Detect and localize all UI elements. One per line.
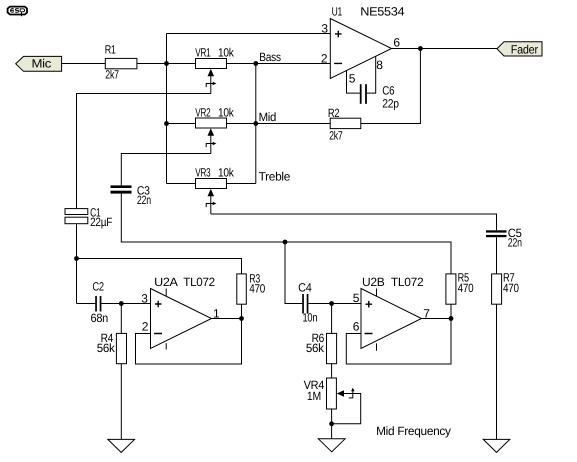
wire xyxy=(120,304,122,334)
svg-text:22µF: 22µF xyxy=(90,215,112,229)
capacitor C6 22p xyxy=(360,84,400,111)
potentiometer VR2 10k xyxy=(195,106,234,154)
svg-text:VR2: VR2 xyxy=(195,106,211,120)
svg-text:NE5534: NE5534 xyxy=(360,5,405,19)
wire VR3 wiper to C5 xyxy=(211,214,497,230)
resistor R2 2k7 xyxy=(328,106,361,143)
wire xyxy=(137,63,167,65)
wire xyxy=(167,123,196,125)
ground xyxy=(108,439,135,452)
wire xyxy=(496,237,498,274)
wire xyxy=(241,304,243,318)
wire U2B feedback xyxy=(346,319,451,365)
svg-text:56k: 56k xyxy=(97,341,116,355)
potentiometer VR3 10k xyxy=(195,166,234,214)
capacitor C3 22n xyxy=(111,184,151,208)
svg-text:C2: C2 xyxy=(92,280,104,294)
svg-text:22n: 22n xyxy=(137,193,151,207)
wire xyxy=(62,63,106,65)
resistor R4 56k xyxy=(97,331,127,364)
svg-text:68n: 68n xyxy=(91,311,109,325)
svg-text:5: 5 xyxy=(349,72,356,86)
op-amp U2B TL072 xyxy=(353,275,431,351)
resistor R3 470 xyxy=(237,272,266,305)
wire xyxy=(308,303,361,305)
svg-text:Treble: Treble xyxy=(259,169,291,183)
wire VR2 wiper to C3 xyxy=(121,154,211,186)
svg-text:Mid Frequency: Mid Frequency xyxy=(376,424,451,438)
svg-text:R1: R1 xyxy=(105,43,116,57)
node input bus xyxy=(164,34,169,184)
svg-text:Bass: Bass xyxy=(259,50,281,64)
op-amp U1 NE5534 xyxy=(321,5,405,86)
svg-text:22p: 22p xyxy=(382,97,399,111)
wire xyxy=(167,33,331,35)
svg-text:U2B: U2B xyxy=(362,275,385,289)
ground xyxy=(483,439,510,452)
wire xyxy=(227,123,256,125)
svg-text:2k7: 2k7 xyxy=(329,129,343,143)
node VR4 ground xyxy=(329,421,334,426)
svg-text:10k: 10k xyxy=(218,106,235,120)
wire C1 to R3 xyxy=(77,259,242,274)
svg-text:Mic: Mic xyxy=(32,57,52,71)
svg-text:56k: 56k xyxy=(306,341,325,355)
wire xyxy=(76,224,78,304)
wire xyxy=(331,409,333,439)
node C4 R6 xyxy=(329,301,334,306)
svg-text:470: 470 xyxy=(503,281,519,295)
node C2 R4 xyxy=(119,301,124,306)
svg-text:470: 470 xyxy=(249,281,265,295)
wire C3 bottom run xyxy=(121,194,451,274)
svg-text:10n: 10n xyxy=(303,311,318,325)
wire xyxy=(227,63,256,65)
wire U2A feedback xyxy=(136,319,242,365)
capacitor C4 10n xyxy=(298,281,317,325)
node Bass xyxy=(253,50,281,66)
node C1 bottom xyxy=(74,256,79,261)
svg-text:470: 470 xyxy=(458,281,474,295)
svg-text:C4: C4 xyxy=(298,281,312,295)
svg-text:Fader: Fader xyxy=(511,42,538,56)
connector Fader xyxy=(497,42,542,57)
svg-text:U2A: U2A xyxy=(154,275,178,289)
wire U1 output xyxy=(392,46,498,51)
wire pin5 xyxy=(347,71,360,94)
wire VR1 wiper to C1 xyxy=(77,94,211,209)
resistor R7 470 xyxy=(492,271,520,305)
svg-text:R2: R2 xyxy=(328,106,340,120)
capacitor C5 22n xyxy=(486,226,522,250)
svg-text:10k: 10k xyxy=(218,46,235,60)
svg-text:Mid: Mid xyxy=(259,110,277,124)
svg-text:TL072: TL072 xyxy=(183,275,215,289)
svg-text:C6: C6 xyxy=(382,84,395,98)
svg-text:10k: 10k xyxy=(218,166,235,180)
svg-text:2: 2 xyxy=(142,320,149,334)
svg-text:2: 2 xyxy=(321,52,328,66)
potentiometer VR1 10k xyxy=(195,46,234,94)
svg-text:VR1: VR1 xyxy=(195,46,211,60)
svg-text:6: 6 xyxy=(353,320,360,334)
esp logo xyxy=(8,7,27,17)
potentiometer VR4 1M xyxy=(304,378,361,424)
wire xyxy=(227,183,256,185)
node Treble xyxy=(259,169,291,183)
svg-text:8: 8 xyxy=(376,58,383,72)
capacitor C2 68n xyxy=(91,280,109,326)
wire xyxy=(450,304,452,318)
resistor R6 56k xyxy=(306,331,337,364)
svg-text:TL072: TL072 xyxy=(391,275,424,289)
wire branch to C4 xyxy=(285,242,302,304)
svg-text:VR3: VR3 xyxy=(195,166,211,180)
wire right bus xyxy=(255,64,257,184)
connector Mic xyxy=(16,56,62,71)
op-amp U2A TL072 xyxy=(141,275,220,349)
wire xyxy=(167,63,196,65)
wire xyxy=(256,123,330,125)
wire xyxy=(256,63,330,65)
wire xyxy=(331,304,333,334)
wire xyxy=(101,303,150,305)
svg-text:1M: 1M xyxy=(307,389,321,403)
wire xyxy=(496,304,498,439)
wire output to R2 xyxy=(361,49,421,124)
svg-text:3: 3 xyxy=(141,292,148,306)
wire U2A output xyxy=(212,316,244,321)
node Mid xyxy=(253,110,276,126)
wire U2B output xyxy=(422,316,454,321)
wire xyxy=(77,303,96,305)
resistor R1 xyxy=(105,43,137,82)
resistor R5 470 xyxy=(446,271,474,305)
wire xyxy=(167,183,196,185)
svg-text:2k7: 2k7 xyxy=(105,68,119,82)
svg-text:3: 3 xyxy=(321,22,328,36)
ground xyxy=(318,439,345,452)
wire xyxy=(331,364,333,378)
svg-text:5: 5 xyxy=(353,291,360,305)
svg-text:6: 6 xyxy=(393,35,400,49)
wire xyxy=(120,364,122,440)
capacitor C1 22uF xyxy=(65,206,112,230)
svg-text:22n: 22n xyxy=(508,236,522,250)
svg-text:U1: U1 xyxy=(332,5,343,19)
wire pin8 xyxy=(367,56,376,93)
